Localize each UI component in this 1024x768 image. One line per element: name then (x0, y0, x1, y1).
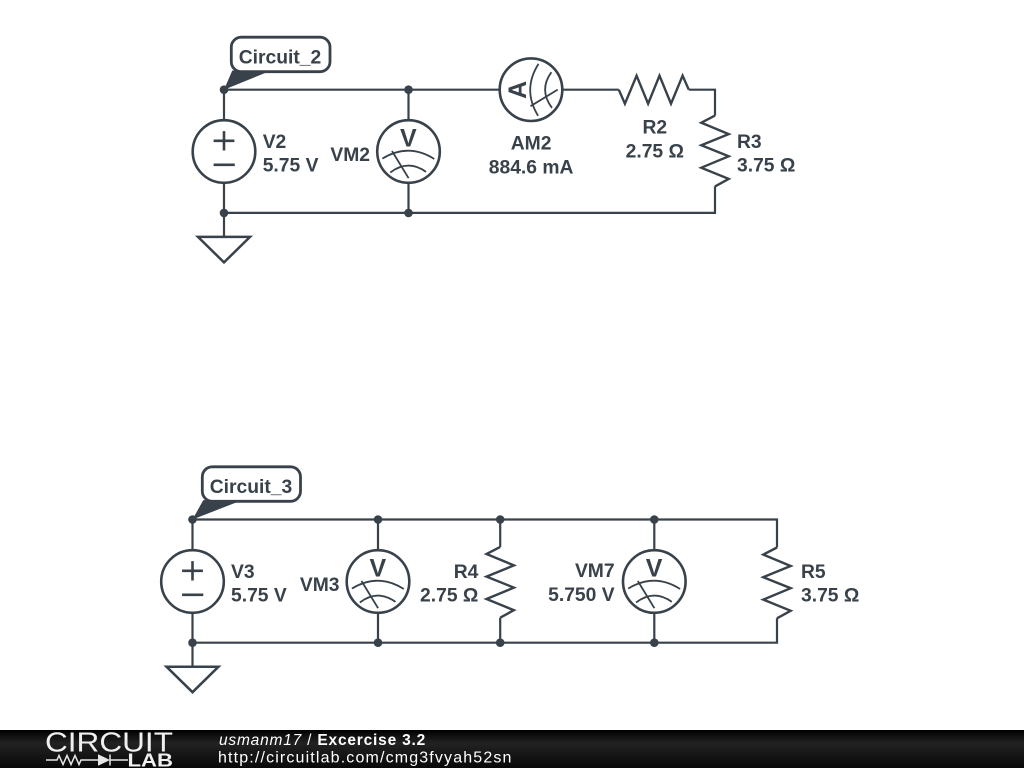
svg-text:Circuit_2: Circuit_2 (239, 47, 322, 68)
svg-text:3.75 Ω: 3.75 Ω (801, 586, 859, 607)
svg-text:3.75 Ω: 3.75 Ω (737, 156, 795, 177)
svg-text:R5: R5 (801, 562, 826, 583)
svg-text:5.75 V: 5.75 V (231, 586, 287, 607)
svg-text:2.75 Ω: 2.75 Ω (420, 586, 478, 607)
svg-text:VM3: VM3 (300, 575, 340, 596)
svg-text:http://circuitlab.com/cmg3fvya: http://circuitlab.com/cmg3fvyah52sn (218, 749, 513, 766)
svg-text:V2: V2 (263, 132, 287, 153)
svg-text:Circuit_3: Circuit_3 (210, 477, 293, 498)
svg-text:V3: V3 (231, 562, 255, 583)
svg-text:R4: R4 (454, 562, 479, 583)
svg-text:VM7: VM7 (575, 561, 615, 582)
svg-text:R3: R3 (737, 132, 762, 153)
svg-text:usmanm17 / Excercise 3.2: usmanm17 / Excercise 3.2 (219, 732, 426, 749)
svg-text:5.750 V: 5.750 V (548, 585, 615, 606)
svg-text:V: V (646, 554, 663, 582)
svg-text:2.75 Ω: 2.75 Ω (626, 142, 684, 163)
svg-text:V: V (369, 554, 386, 582)
svg-text:A: A (504, 81, 532, 99)
svg-text:V: V (400, 124, 417, 152)
svg-text:884.6 mA: 884.6 mA (489, 158, 574, 179)
svg-text:R2: R2 (642, 118, 667, 139)
svg-text:AM2: AM2 (511, 134, 552, 155)
svg-text:VM2: VM2 (330, 145, 370, 166)
svg-text:5.75 V: 5.75 V (263, 156, 319, 177)
svg-text:LAB: LAB (128, 750, 174, 768)
